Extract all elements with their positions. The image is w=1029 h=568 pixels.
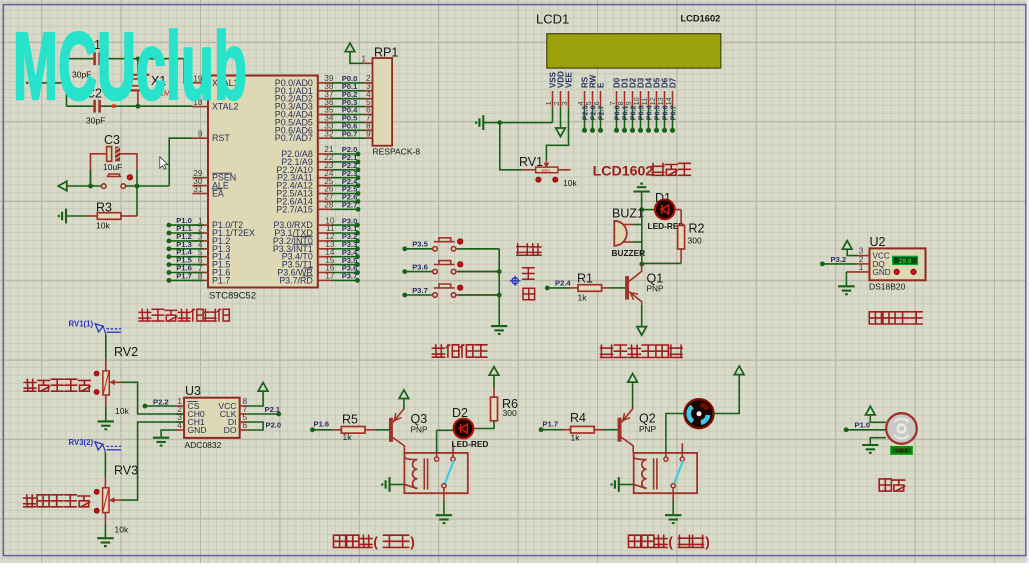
pin P1.7 (8) [193, 279, 209, 281]
power arrow (left) reset [58, 181, 67, 191]
relay contacts [435, 457, 439, 461]
svg-text:P3.6: P3.6 [412, 262, 428, 271]
node P1.2 [169, 240, 204, 242]
pin P1.5 (6) [193, 264, 209, 266]
wire BUZ1 top lead [623, 224, 634, 226]
node P1.6 [169, 272, 204, 274]
pin XTAL2 (18) [193, 106, 209, 108]
U3 pin GND (4) [176, 429, 184, 431]
svg-text:P3.7: P3.7 [412, 286, 428, 295]
svg-text:10k: 10k [115, 406, 129, 416]
ground arrow (down) Q1 [637, 327, 647, 336]
power arrow fan [734, 366, 744, 375]
svg-text:): ) [705, 534, 710, 549]
pin P0.1/AD1 (38) wire to RP1 pin 3 net P0.1 [318, 90, 331, 92]
svg-text:U2: U2 [870, 235, 886, 249]
svg-text:PNP: PNP [639, 424, 657, 434]
node P1.0 [169, 224, 204, 226]
svg-text:P0.7: P0.7 [342, 129, 358, 138]
power arrow Q2 [628, 374, 638, 383]
pin P1.6 (7) [193, 272, 209, 274]
svg-text:EA: EA [212, 189, 224, 199]
power (down arrow) VDD [560, 108, 562, 128]
svg-text:E: E [597, 82, 606, 88]
wire R2 bottom [680, 249, 682, 264]
svg-text:P1.7: P1.7 [176, 271, 192, 280]
label 舵机 [879, 479, 891, 491]
pin P3.4/T0 (14) net P3.4 [318, 256, 331, 258]
capacitor C2 [67, 105, 94, 107]
svg-text:P1.6: P1.6 [314, 420, 330, 429]
ground buttons [491, 326, 507, 334]
svg-text:P1.7: P1.7 [543, 420, 559, 429]
relay contacts [664, 457, 668, 461]
svg-text:1k: 1k [571, 433, 581, 443]
pin P2.6/A14 (27) net P2.6 [318, 200, 331, 202]
svg-text:1: 1 [361, 54, 366, 64]
pin P0.3/AD3 (36) wire to RP1 pin 5 net P0.3 [318, 106, 331, 108]
transistor Q1 PNP [625, 276, 629, 300]
ground (left) relay coil [382, 477, 389, 492]
svg-text:GND: GND [188, 425, 207, 435]
wire Q1 emitter to ground [641, 305, 643, 327]
pin P2.2/A10 (23) net P2.2 [318, 169, 331, 171]
svg-text:P1.7: P1.7 [212, 275, 230, 285]
svg-text:300: 300 [503, 408, 517, 418]
svg-text:9: 9 [366, 128, 371, 138]
svg-text:R4: R4 [570, 411, 586, 425]
svg-text:14: 14 [664, 97, 673, 105]
svg-text:RESPACK-8: RESPACK-8 [373, 147, 421, 157]
ground (up) alarm rail [633, 184, 649, 192]
label 独立按键 [432, 345, 444, 357]
svg-text:): ) [410, 534, 415, 549]
svg-text:U3: U3 [185, 384, 201, 398]
relay switch blade [674, 460, 683, 483]
label 液位值调节 [24, 495, 36, 507]
svg-text:3: 3 [560, 101, 569, 105]
svg-text:P3.7: P3.7 [342, 272, 358, 281]
ADC U3 ADC0832 [184, 398, 240, 438]
label 继电器加热 [334, 535, 346, 547]
svg-text:LCD1602: LCD1602 [593, 163, 654, 179]
svg-text:P2.7: P2.7 [597, 105, 606, 120]
svg-text:P2.7: P2.7 [342, 201, 358, 210]
node P1.1 [169, 232, 204, 234]
pin P3.7/RD (17) net P3.7 [318, 279, 331, 281]
resistor R4 1k [541, 429, 562, 431]
label 声光报警电路 [600, 345, 612, 357]
pin P0.0/AD0 (39) wire to RP1 pin 2 net P0.0 [318, 82, 331, 84]
svg-text:P0.7/AD7: P0.7/AD7 [275, 133, 313, 143]
buzzer BUZ1 [614, 221, 627, 246]
ground (LCD VSS) [476, 115, 483, 130]
fan motor [684, 399, 713, 428]
pin P3.6/WR (16) net P3.6 [318, 272, 331, 274]
svg-text:ADC0832: ADC0832 [185, 440, 222, 450]
relay coil [634, 453, 647, 460]
wire U3 DI/DO net P2.0 [248, 422, 264, 430]
wire alarm rail [641, 210, 643, 265]
wire D2 to R6 [473, 428, 477, 430]
ground RV2 [98, 421, 114, 429]
node P2.2 [143, 404, 148, 409]
wire relay to fan [665, 453, 667, 457]
label 继电器制冷 [629, 535, 641, 547]
pin P2.7/A15 (28) net P2.7 [318, 208, 331, 210]
svg-text:R2: R2 [689, 222, 705, 236]
svg-text:P2.4: P2.4 [555, 278, 571, 287]
pin RST (9) [193, 137, 209, 139]
label 测温模块 [869, 312, 881, 324]
svg-text:R1: R1 [577, 272, 593, 286]
wire VEE to RV1 wiper [546, 108, 568, 161]
U2 display 29.0 [893, 256, 918, 264]
power arrow servo [866, 406, 876, 415]
wire button right to RST [126, 185, 170, 187]
svg-text:BUZ1: BUZ1 [612, 207, 644, 221]
node P1.7 [539, 427, 544, 432]
svg-text:C3: C3 [104, 133, 120, 147]
pin P3.0/RXD (10) net P3.0 [318, 224, 331, 226]
wire relay common to ground [443, 488, 445, 501]
svg-text:P0.7: P0.7 [669, 105, 678, 120]
pin P1.3 (4) [193, 248, 209, 250]
pin P0.4/AD4 (35) wire to RP1 pin 6 net P0.4 [318, 114, 331, 116]
svg-text:RV2: RV2 [114, 345, 138, 359]
U3 pin CH1 (3) [176, 421, 184, 423]
transistor Q2 PNP [618, 418, 622, 442]
pin P3.1/TXD (11) net P3.1 [318, 232, 331, 234]
ground (left of C1/C2 rail) [27, 76, 34, 91]
U3 pin DI (5) [240, 421, 248, 423]
push button P3.5 [402, 246, 407, 251]
ground U2 [845, 272, 847, 286]
resistor R1 1k [545, 286, 550, 291]
power arrow R6 [489, 367, 499, 376]
mouse cursor [160, 157, 168, 169]
power arrow Q3 [399, 390, 409, 399]
pin P1.0/T2 (1) [193, 224, 209, 226]
node rail junction [66, 59, 68, 106]
pin P1.2 (3) [193, 240, 209, 242]
U3 pin DO (6) [240, 429, 248, 431]
capacitor C1 [67, 58, 94, 60]
svg-text:VEE: VEE [565, 71, 574, 88]
resistor R3 [59, 209, 66, 224]
svg-text:PNP: PNP [647, 284, 665, 294]
wire D1 to R2 [675, 209, 682, 211]
svg-text:1k: 1k [578, 293, 588, 303]
svg-text:LED-RED: LED-RED [452, 439, 489, 449]
svg-text:28: 28 [324, 200, 334, 210]
pin EA (31) [193, 193, 209, 195]
pin P0.6/AD6 (33) wire to RP1 pin 8 net P0.6 [318, 129, 331, 131]
LED D1 LED-RED [642, 209, 655, 211]
pin P0.2/AD2 (37) wire to RP1 pin 4 net P0.2 [318, 98, 331, 100]
ground (left) relay coil [612, 477, 619, 492]
relay box [404, 453, 467, 493]
svg-text:6: 6 [592, 101, 601, 105]
relay box [634, 453, 697, 493]
pin P2.4/A12 (25) net P2.4 [318, 185, 331, 187]
wire U3 CLK net P2.1 [248, 413, 279, 415]
svg-text:300: 300 [688, 236, 702, 246]
push button P3.6 [402, 269, 407, 274]
svg-text:RST: RST [212, 133, 230, 143]
svg-text:(: ( [668, 534, 673, 549]
push button P3.7 [402, 293, 407, 298]
svg-text:MCUclub: MCUclub [13, 13, 247, 120]
potentiometer RV2 10k (water quality) [105, 334, 107, 359]
wire BUZ1 bottom lead [623, 241, 634, 243]
ground U3 [153, 438, 169, 446]
node P1.3 [169, 248, 204, 250]
relay switch blade [445, 460, 454, 483]
svg-text:P3.5: P3.5 [412, 240, 428, 249]
svg-text:LCD1602: LCD1602 [681, 14, 721, 24]
pin ALE (30) [193, 185, 209, 187]
svg-text:P2.2: P2.2 [153, 397, 169, 406]
svg-text:P3.7/RD: P3.7/RD [279, 275, 313, 285]
svg-text:RV3(2): RV3(2) [69, 438, 94, 447]
servo motor [886, 413, 917, 444]
power arrow U3 VCC [248, 391, 264, 406]
resistor R6 300 [491, 397, 498, 421]
marker blue crosshair [510, 276, 520, 286]
svg-text:P2.0: P2.0 [266, 421, 282, 430]
ground relay common [436, 515, 452, 523]
svg-text:D7: D7 [669, 77, 678, 88]
wire button common rail [498, 249, 500, 326]
wire U3 GND to ground [161, 430, 176, 437]
svg-text:RV1(1): RV1(1) [69, 320, 94, 329]
svg-text:P3.2: P3.2 [831, 255, 847, 264]
pin P2.0/A8 (21) net P2.0 [318, 153, 331, 155]
svg-text:31: 31 [193, 184, 203, 194]
svg-text:10k: 10k [563, 178, 577, 188]
LED D2 LED-RED [436, 430, 438, 453]
svg-text:D2: D2 [452, 406, 468, 420]
pin P2.3/A11 (24) net P2.3 [318, 177, 331, 179]
U2 buttons [894, 269, 899, 274]
pin P3.5/T1 (15) net P3.5 [318, 264, 331, 266]
resistor R5 1k [312, 429, 332, 431]
resistor R2 300 [678, 225, 685, 249]
svg-text:1k: 1k [343, 432, 353, 442]
U3 pin VCC (8) [240, 405, 248, 407]
wire [35, 82, 67, 84]
wire C3 left lead [91, 154, 107, 186]
potentiometer RV3 10k (liquid level) [104, 452, 106, 476]
node P3.2 [820, 262, 825, 267]
svg-text:(: ( [373, 534, 378, 549]
wire relay NO contact stub [452, 443, 454, 457]
U3 pin CLK (7) [240, 413, 248, 415]
svg-text:9: 9 [198, 129, 203, 139]
reset button [101, 174, 125, 188]
svg-text:BUZZER: BUZZER [612, 248, 646, 258]
pin PSEN (29) [193, 177, 209, 179]
svg-text:10k: 10k [115, 525, 129, 535]
transistor Q3 PNP [389, 418, 393, 442]
svg-text:P1.0: P1.0 [855, 421, 871, 430]
ground RV3 [97, 538, 113, 546]
temperature sensor U2 DS18B20 [870, 248, 926, 280]
label 设置 [517, 244, 529, 256]
svg-text:DS18B20: DS18B20 [869, 282, 906, 292]
node P1.5 [169, 264, 204, 266]
label 减 [523, 288, 535, 300]
svg-text:10uF: 10uF [103, 162, 122, 172]
pin P2.5/A13 (26) net P2.5 [318, 193, 331, 195]
pin P2.1/A9 (22) net P2.1 [318, 161, 331, 163]
relay core [423, 458, 425, 489]
pin P0.5/AD5 (34) wire to RP1 pin 7 net P0.5 [318, 121, 331, 123]
potentiometer RV1 10k [545, 160, 547, 166]
MCU U1 STC89C52 [208, 76, 318, 288]
svg-text:LCD1: LCD1 [536, 12, 569, 27]
pin P3.3/INT1 (13) net P3.3 [318, 248, 331, 250]
label 单片机最小系统 [139, 309, 151, 321]
wire relay NO contact stub [681, 443, 683, 457]
svg-text:10k: 10k [96, 221, 110, 231]
marker red cross on C2 wire [112, 104, 116, 108]
node P1.4 [169, 256, 204, 258]
svg-text:STC89C52: STC89C52 [209, 291, 256, 302]
wire [90, 170, 92, 186]
node P1.6 [310, 427, 315, 432]
node P1.0 [844, 427, 849, 432]
svg-text:32: 32 [324, 128, 334, 138]
svg-text:P2.1: P2.1 [265, 405, 281, 414]
label 加 [523, 268, 535, 280]
svg-text:DO: DO [224, 425, 237, 435]
wire C3 right lead [120, 154, 137, 170]
U3 pin CS (1) [176, 405, 184, 407]
relay coil [404, 453, 417, 460]
svg-text:R3: R3 [96, 201, 112, 215]
pin XTAL1 (19) [193, 82, 209, 84]
power arrow U2 [842, 241, 852, 250]
ground servo [870, 438, 886, 444]
svg-text:RV3: RV3 [114, 464, 138, 478]
svg-text:17: 17 [325, 271, 335, 281]
svg-text:29.0: 29.0 [899, 258, 912, 265]
svg-text:RP1: RP1 [374, 46, 398, 60]
svg-text:P2.7/A15: P2.7/A15 [276, 204, 313, 214]
pin P1.4 (5) [193, 256, 209, 258]
crystal X1 [137, 59, 139, 75]
ground relay common [665, 515, 681, 523]
pin P0.7/AD7 (32) wire to RP1 pin 9 net P0.7 [318, 137, 331, 139]
svg-text:+88.8: +88.8 [895, 449, 908, 455]
svg-text:6: 6 [243, 420, 248, 430]
wire [641, 192, 643, 210]
label 水质值调节 [24, 379, 36, 391]
wire relay common to ground [672, 488, 674, 501]
servo display [891, 447, 912, 454]
svg-text:D1: D1 [655, 191, 671, 205]
wire fan to power [713, 375, 739, 414]
pin P1.1/T2EX (2) [193, 232, 209, 234]
capacitor C3 (electrolytic) [107, 147, 112, 162]
resistor pack RP1 RESPACK-8 [345, 43, 355, 52]
wire VSS net [483, 122, 552, 124]
node P1.7 [169, 279, 204, 281]
relay core [653, 458, 655, 489]
svg-text:PNP: PNP [411, 424, 429, 434]
pin P3.2/INT0 (12) net P3.2 [318, 240, 331, 242]
svg-text:RV1: RV1 [519, 155, 543, 169]
svg-text:GND: GND [873, 268, 891, 277]
U3 pin CH0 (2) [176, 413, 184, 415]
svg-text:R5: R5 [342, 413, 358, 427]
